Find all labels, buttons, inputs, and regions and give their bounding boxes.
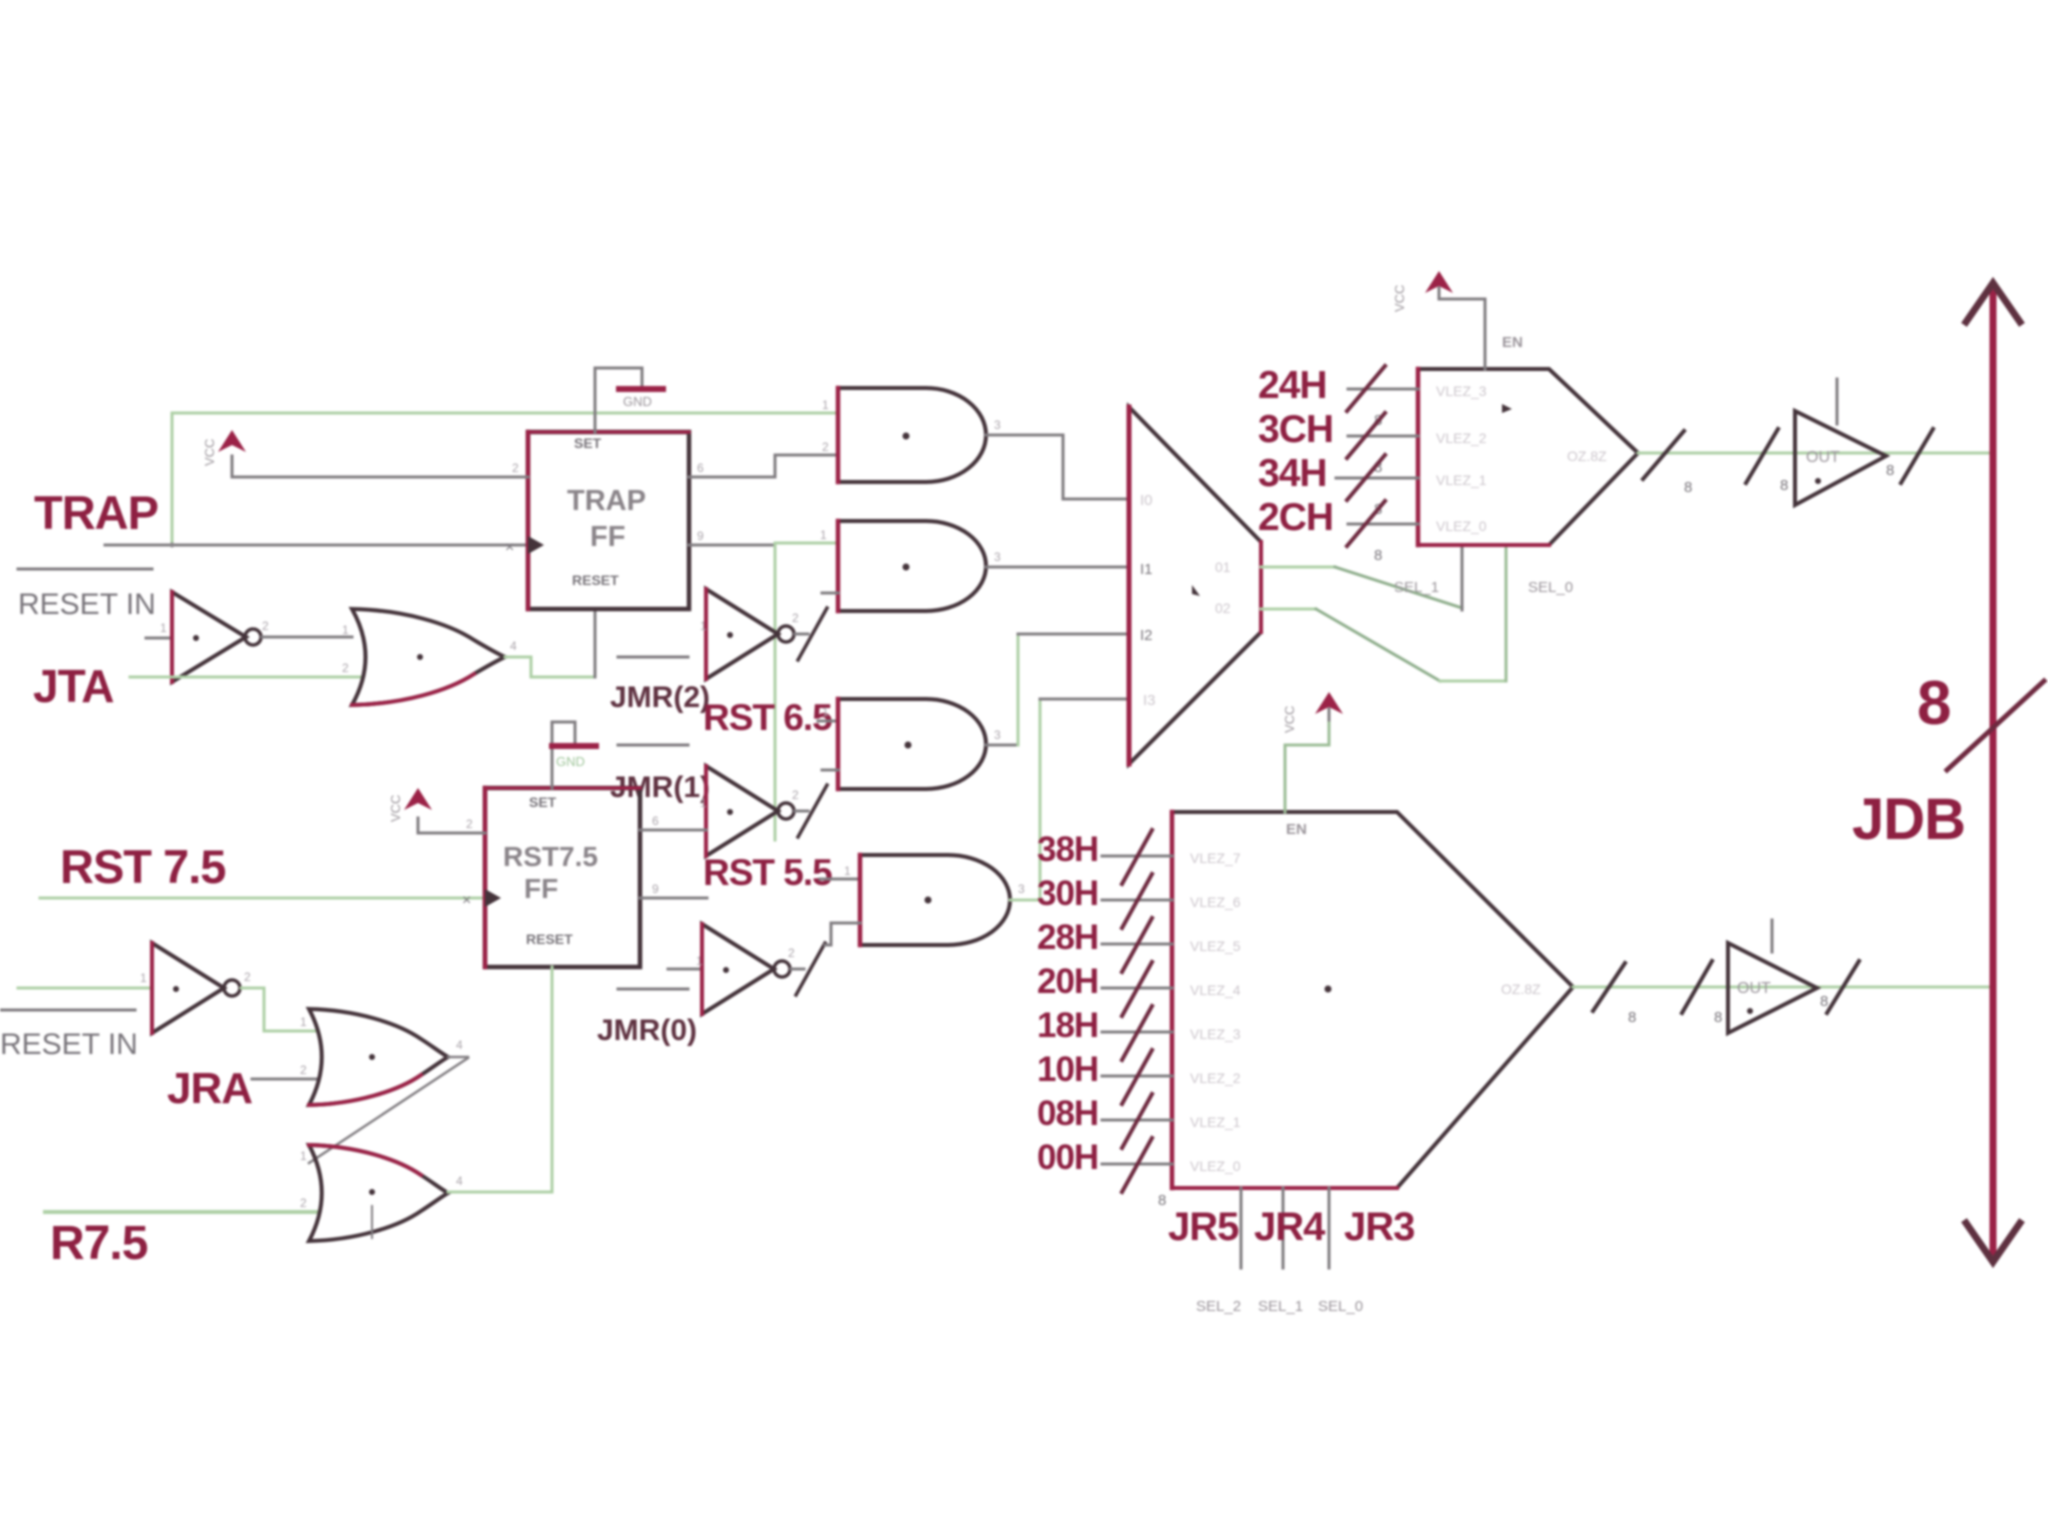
svg-text:JDB: JDB bbox=[1852, 787, 1965, 852]
svg-text:30H: 30H bbox=[1037, 874, 1098, 913]
wire AND3 output elbow to MUX in3 bbox=[986, 744, 1018, 747]
wire 34H input bbox=[1336, 477, 1418, 480]
svg-text:VCC: VCC bbox=[1392, 285, 1407, 312]
svg-text:8: 8 bbox=[1714, 1009, 1722, 1026]
switch slash U3 to AND3 bbox=[798, 785, 827, 837]
svg-text:3CH: 3CH bbox=[1258, 408, 1333, 451]
ground GND bar above FF2 bbox=[552, 743, 596, 749]
and-gate AND1 bbox=[838, 388, 986, 482]
or-gate B bbox=[309, 1009, 448, 1105]
wire OR A output to FF1 reset bbox=[505, 657, 595, 677]
svg-text:GND: GND bbox=[556, 754, 585, 769]
svg-text:VCC: VCC bbox=[388, 795, 403, 822]
svg-text:VLEZ_3: VLEZ_3 bbox=[1436, 383, 1487, 399]
wire ROM1 output bbox=[1638, 452, 1990, 455]
svg-text:2: 2 bbox=[300, 1063, 307, 1077]
svg-text:R7.5: R7.5 bbox=[50, 1217, 148, 1270]
vcc arrow ROM2 bbox=[1282, 692, 1343, 812]
svg-text:1: 1 bbox=[700, 619, 707, 633]
svg-text:02: 02 bbox=[1215, 600, 1231, 616]
bus slash ROM2 out bbox=[1593, 963, 1625, 1011]
wire 18H input bbox=[1102, 1031, 1172, 1034]
svg-text:FF: FF bbox=[524, 873, 558, 904]
wire FF2 D input bbox=[418, 832, 485, 835]
bus slash before buffer1 bbox=[1746, 429, 1778, 483]
wire RST5.5 to AND4 top bbox=[820, 878, 860, 881]
bus slash after buffer1 bbox=[1901, 429, 1933, 483]
flip-flop TRAP FF box bbox=[528, 432, 689, 609]
vcc arrow FF1 bbox=[202, 430, 246, 477]
svg-text:2: 2 bbox=[512, 461, 519, 475]
svg-text:1: 1 bbox=[140, 971, 147, 985]
buffer block ROM2 pentagon bbox=[1172, 812, 1573, 1188]
wire FF1 Qbar output bbox=[689, 544, 775, 547]
wire AND2 output to MUX in2 bbox=[986, 566, 1129, 569]
wire FF1 set loop bbox=[595, 368, 642, 432]
svg-text:SEL_0: SEL_0 bbox=[1318, 1298, 1363, 1315]
svg-text:3: 3 bbox=[994, 550, 1001, 564]
bus width slash IDB bbox=[1947, 681, 2044, 770]
wire U2 out stub bbox=[795, 633, 808, 636]
wire OR B output stub bbox=[448, 1056, 468, 1059]
bus slash before buffer2 bbox=[1682, 961, 1712, 1013]
wire 20H input bbox=[1102, 987, 1172, 990]
svg-text:3: 3 bbox=[994, 418, 1001, 432]
wire AND4 vertical to MUX in4 bbox=[1039, 699, 1042, 900]
wire 28H input bbox=[1102, 943, 1172, 946]
svg-text:TRAP: TRAP bbox=[567, 485, 646, 517]
svg-text:I0: I0 bbox=[1140, 492, 1153, 509]
svg-text:9: 9 bbox=[652, 882, 659, 896]
inverter U4 IMR0 bbox=[702, 924, 790, 1014]
inverter U2 IMR2 bbox=[706, 589, 794, 679]
svg-text:18H: 18H bbox=[1037, 1006, 1098, 1045]
svg-text:VLEZ_1: VLEZ_1 bbox=[1190, 1114, 1241, 1130]
wire SEL_1 pin bbox=[1461, 545, 1464, 610]
svg-text:1: 1 bbox=[700, 796, 707, 810]
net label IMR(2) overline bbox=[618, 656, 688, 659]
wire FF1 Q output staircase to AND1 bbox=[689, 455, 838, 477]
inverter B bbox=[152, 943, 240, 1033]
net label RESET IN (top) overline bbox=[18, 568, 152, 571]
svg-text:2: 2 bbox=[792, 788, 799, 802]
svg-text:2CH: 2CH bbox=[1258, 496, 1333, 539]
svg-text:28H: 28H bbox=[1037, 918, 1098, 957]
wire TRAP horizontal bbox=[105, 544, 528, 547]
svg-text:JMR(2): JMR(2) bbox=[610, 681, 710, 714]
wire 3CH input bbox=[1348, 435, 1418, 438]
wire U3 out stub bbox=[795, 810, 808, 813]
wire diagonal OR B to OR C bbox=[309, 1058, 468, 1163]
or-gate A bbox=[352, 609, 505, 705]
svg-text:2: 2 bbox=[466, 817, 473, 831]
wire OR C output to FF2 reset bbox=[448, 1191, 552, 1194]
bus slash 08H bbox=[1122, 1094, 1152, 1148]
svg-text:OUT: OUT bbox=[1737, 980, 1771, 997]
net label IMR(1) overline bbox=[618, 744, 688, 747]
pin SEL_0 of ROM2 bbox=[1328, 1188, 1331, 1268]
svg-text:10H: 10H bbox=[1037, 1050, 1098, 1089]
bus slash 3CH bbox=[1347, 413, 1385, 458]
svg-text:8: 8 bbox=[1684, 479, 1692, 496]
bus slash 38H bbox=[1122, 830, 1152, 884]
wire 30H input bbox=[1102, 899, 1172, 902]
wire SEL_0 pin bbox=[1505, 545, 1508, 681]
wire outB horizontal bbox=[1440, 680, 1506, 683]
bus IDB bottom arrowhead bbox=[1966, 1223, 2020, 1262]
svg-text:38H: 38H bbox=[1037, 830, 1098, 869]
bus IDB top arrowhead bbox=[1966, 283, 2020, 322]
svg-text:SEL_1: SEL_1 bbox=[1394, 579, 1439, 596]
and-gate AND2 bbox=[838, 521, 986, 611]
svg-text:JTA: JTA bbox=[33, 660, 114, 712]
bus slash 28H bbox=[1122, 918, 1152, 972]
ground GND bar above FF1 bbox=[619, 386, 663, 392]
svg-text:SEL_1: SEL_1 bbox=[1258, 1298, 1303, 1315]
bus slash 10H bbox=[1122, 1050, 1152, 1104]
wire slash to AND3 bottom input bbox=[822, 769, 838, 772]
vcc arrow ROM1 bbox=[1392, 271, 1485, 369]
bus slash 34H bbox=[1347, 455, 1385, 500]
svg-text:SET: SET bbox=[529, 794, 557, 810]
wire U4 out stub bbox=[791, 968, 804, 971]
node TRAP junction bbox=[170, 543, 175, 548]
svg-text:24H: 24H bbox=[1258, 364, 1327, 407]
wire AND1 output to MUX in1 bbox=[986, 435, 1129, 499]
wire FF2 second output bbox=[640, 897, 707, 900]
svg-text:2: 2 bbox=[342, 661, 349, 675]
bus slash 2CH bbox=[1347, 501, 1385, 546]
wire FF2 Q output to U3 bbox=[640, 829, 706, 832]
svg-text:2: 2 bbox=[244, 970, 251, 984]
svg-text:RESET: RESET bbox=[526, 931, 573, 947]
svg-text:08H: 08H bbox=[1037, 1094, 1098, 1133]
svg-text:01: 01 bbox=[1215, 559, 1231, 575]
svg-text:2: 2 bbox=[262, 619, 269, 633]
svg-text:3: 3 bbox=[1018, 882, 1025, 896]
wire inverter B output staircase to OR B bbox=[241, 988, 315, 1031]
svg-text:I1: I1 bbox=[1140, 561, 1153, 578]
wire RST 7.5 to FF2 clock bbox=[40, 897, 485, 900]
switch slash U2 to AND2 bbox=[798, 608, 827, 660]
svg-text:6: 6 bbox=[652, 814, 659, 828]
wire FF1 Qbar to AND2 top bbox=[775, 543, 838, 545]
wire 38H input bbox=[1102, 855, 1172, 858]
svg-text:1: 1 bbox=[822, 705, 829, 719]
wire AND4 output bbox=[1010, 899, 1040, 902]
buffer OUT2 bbox=[1728, 920, 1817, 1033]
wire JRA to OR B bbox=[252, 1078, 318, 1081]
svg-text:FF: FF bbox=[590, 521, 625, 553]
wire 24H input bbox=[1348, 388, 1418, 391]
svg-text:8: 8 bbox=[1820, 993, 1828, 1010]
wire inverter B input bbox=[18, 987, 152, 990]
wire FF2 set loop square bbox=[552, 722, 575, 788]
bus slash 24H bbox=[1347, 366, 1385, 411]
buffer OUT1 bbox=[1795, 379, 1886, 505]
wire vertical branch x775 bbox=[774, 545, 777, 840]
svg-text:JMR(0): JMR(0) bbox=[597, 1014, 697, 1047]
bus slash 30H bbox=[1122, 874, 1152, 928]
svg-text:34H: 34H bbox=[1258, 452, 1327, 495]
svg-text:VLEZ_7: VLEZ_7 bbox=[1190, 850, 1241, 866]
svg-text:20H: 20H bbox=[1037, 962, 1098, 1001]
svg-text:1: 1 bbox=[300, 1015, 307, 1029]
svg-text:×: × bbox=[505, 539, 514, 556]
svg-text:8: 8 bbox=[1886, 462, 1894, 479]
svg-text:4: 4 bbox=[456, 1038, 463, 1052]
wire 08H input bbox=[1102, 1119, 1172, 1122]
svg-text:RESET IN: RESET IN bbox=[0, 1028, 138, 1061]
svg-text:GND: GND bbox=[623, 394, 652, 409]
wire inverter U1 input bbox=[146, 637, 172, 640]
svg-text:8: 8 bbox=[1628, 1009, 1636, 1026]
wire 10H input bbox=[1102, 1075, 1172, 1078]
wire FF2 reset pin down bbox=[551, 967, 554, 1192]
svg-text:VLEZ_3: VLEZ_3 bbox=[1190, 1026, 1241, 1042]
wire MUX outA bbox=[1261, 566, 1335, 569]
svg-text:1: 1 bbox=[342, 623, 349, 637]
svg-text:EN: EN bbox=[1286, 821, 1307, 838]
svg-text:8: 8 bbox=[1158, 1192, 1166, 1209]
wire TRAP to AND1 top input bbox=[172, 412, 838, 415]
wire ITA to OR A bbox=[130, 676, 360, 679]
svg-text:VLEZ_4: VLEZ_4 bbox=[1190, 982, 1241, 998]
svg-text:RESET IN: RESET IN bbox=[18, 588, 156, 621]
svg-text:4: 4 bbox=[510, 639, 517, 653]
multiplexer MUX bbox=[1129, 407, 1261, 764]
inverter U3 IMR1 bbox=[706, 766, 794, 856]
and-gate AND3 bbox=[838, 699, 986, 789]
wire inverter U4 input stub bbox=[668, 968, 702, 971]
svg-text:2: 2 bbox=[792, 611, 799, 625]
wire FF1 reset pin bbox=[594, 609, 597, 677]
svg-text:2: 2 bbox=[788, 946, 795, 960]
wire diagonal outB down bbox=[1316, 609, 1440, 681]
svg-text:RST 5.5: RST 5.5 bbox=[703, 852, 832, 893]
wire MUX outB bbox=[1261, 608, 1316, 611]
pin SEL_2 of ROM2 bbox=[1240, 1188, 1243, 1268]
svg-text:JR4: JR4 bbox=[1254, 1205, 1326, 1249]
svg-text:2: 2 bbox=[300, 1196, 307, 1210]
svg-text:3: 3 bbox=[994, 728, 1001, 742]
svg-text:JRA: JRA bbox=[167, 1064, 252, 1113]
or-gate C bbox=[309, 1145, 448, 1241]
buffer block ROM1 pentagon bbox=[1418, 334, 1638, 545]
svg-text:VLEZ_1: VLEZ_1 bbox=[1436, 472, 1487, 488]
bus slash 00H bbox=[1122, 1138, 1152, 1192]
svg-text:TRAP: TRAP bbox=[34, 486, 158, 539]
svg-text:VLEZ_2: VLEZ_2 bbox=[1436, 430, 1487, 446]
svg-text:1: 1 bbox=[822, 398, 829, 412]
svg-text:1: 1 bbox=[844, 864, 851, 878]
svg-text:SEL_2: SEL_2 bbox=[1196, 1298, 1241, 1315]
bus slash after buffer2 bbox=[1827, 961, 1859, 1013]
svg-text:I3: I3 bbox=[1143, 692, 1156, 709]
svg-text:OZ.8Z: OZ.8Z bbox=[1567, 448, 1607, 464]
and-gate AND4 bbox=[860, 855, 1010, 945]
svg-text:VCC: VCC bbox=[1282, 706, 1297, 733]
svg-text:8: 8 bbox=[1780, 477, 1788, 494]
svg-text:1: 1 bbox=[300, 1149, 307, 1163]
svg-text:SET: SET bbox=[574, 435, 602, 451]
bus slash ROM1 out bbox=[1643, 431, 1684, 479]
bus IDB vertical bbox=[1990, 293, 1997, 1252]
svg-text:8: 8 bbox=[1374, 547, 1382, 564]
svg-text:VLEZ_6: VLEZ_6 bbox=[1190, 894, 1241, 910]
svg-text:4: 4 bbox=[456, 1174, 463, 1188]
inverter U1 bbox=[172, 592, 261, 682]
svg-text:1: 1 bbox=[160, 621, 167, 635]
svg-text:VLEZ_0: VLEZ_0 bbox=[1436, 518, 1487, 534]
svg-text:OUT: OUT bbox=[1806, 449, 1840, 466]
bus slash 20H bbox=[1122, 962, 1152, 1016]
svg-text:VLEZ_5: VLEZ_5 bbox=[1190, 938, 1241, 954]
wire slash to AND2 bottom input bbox=[822, 592, 838, 595]
svg-text:8: 8 bbox=[1917, 669, 1951, 738]
bus slash 18H bbox=[1122, 1006, 1152, 1060]
svg-text:2: 2 bbox=[822, 440, 829, 454]
svg-text:VCC: VCC bbox=[202, 439, 217, 466]
wire slash to AND4 bottom input bbox=[825, 923, 860, 945]
wire R7.5 to OR C bbox=[45, 1210, 318, 1214]
svg-text:1: 1 bbox=[696, 954, 703, 968]
svg-text:RST 7.5: RST 7.5 bbox=[60, 840, 225, 893]
svg-text:EN: EN bbox=[1502, 334, 1523, 351]
svg-text:00H: 00H bbox=[1037, 1138, 1098, 1177]
wire ROM2 output bbox=[1573, 986, 1990, 989]
svg-text:SEL_0: SEL_0 bbox=[1528, 579, 1573, 596]
wire inverter U1 output to OR A bbox=[262, 636, 352, 639]
net label RESET IN (bottom) overline bbox=[0, 1009, 135, 1012]
switch slash U4 bbox=[796, 943, 825, 995]
wire 00H input bbox=[1102, 1163, 1172, 1166]
wire TRAP branch vertical bbox=[171, 413, 174, 545]
svg-text:VLEZ_0: VLEZ_0 bbox=[1190, 1158, 1241, 1174]
net label IMR(0) overline bbox=[618, 988, 688, 991]
wire FF1 D input bbox=[232, 476, 528, 479]
svg-text:6: 6 bbox=[697, 461, 704, 475]
wire RST6.5 to AND3 top bbox=[818, 720, 838, 723]
svg-text:×: × bbox=[462, 892, 471, 909]
pin SEL_1 of ROM2 bbox=[1282, 1188, 1285, 1268]
svg-text:9: 9 bbox=[697, 529, 704, 543]
wire 2CH input bbox=[1348, 523, 1418, 526]
svg-text:RESET: RESET bbox=[572, 572, 619, 588]
svg-text:I2: I2 bbox=[1140, 627, 1153, 644]
svg-text:JR5: JR5 bbox=[1168, 1205, 1239, 1249]
pin numbers (faint) bbox=[140, 398, 1025, 1210]
svg-text:RST 6.5: RST 6.5 bbox=[703, 697, 832, 738]
svg-text:JR3: JR3 bbox=[1344, 1205, 1414, 1249]
wire diagonal outA to SEL_1 bbox=[1335, 567, 1462, 608]
svg-text:1: 1 bbox=[820, 528, 827, 542]
flip-flop RST7.5 FF box bbox=[485, 788, 640, 967]
svg-text:VLEZ_2: VLEZ_2 bbox=[1190, 1070, 1241, 1086]
svg-text:OZ.8Z: OZ.8Z bbox=[1501, 981, 1541, 997]
vcc arrow FF2 bbox=[388, 788, 432, 833]
svg-text:RST7.5: RST7.5 bbox=[503, 841, 598, 872]
